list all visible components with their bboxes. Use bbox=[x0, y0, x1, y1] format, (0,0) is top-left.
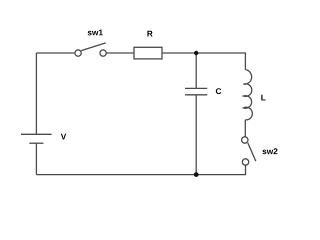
node B (junction dot bottom) bbox=[194, 172, 199, 177]
wire sw2 to bottom-right corner bbox=[196, 165, 245, 174]
wire top-left (battery + to sw1) bbox=[36, 52, 75, 54]
label sw2 bbox=[262, 148, 277, 154]
label C bbox=[216, 88, 222, 94]
node A (junction dot top) bbox=[194, 51, 198, 55]
wire sw1 to R bbox=[106, 52, 134, 54]
capacitor C bbox=[185, 88, 207, 94]
switch sw1 bbox=[75, 43, 106, 56]
battery V bbox=[21, 134, 52, 143]
wire node B to bottom-left corner bbox=[36, 174, 196, 176]
wire node A to top-right corner bbox=[196, 53, 245, 70]
wire R to node A bbox=[162, 52, 196, 54]
label R bbox=[147, 31, 152, 37]
wire bottom-left to battery - bbox=[35, 143, 37, 174]
label L bbox=[261, 95, 265, 101]
wire L to sw2 bbox=[244, 120, 246, 137]
wire capacitor to node B bbox=[195, 95, 197, 175]
resistor R bbox=[134, 47, 162, 59]
wire battery + up to top-left corner bbox=[35, 53, 37, 134]
label sw1 bbox=[88, 30, 103, 36]
switch sw2 bbox=[242, 137, 256, 165]
label V bbox=[61, 134, 66, 140]
wire node A down to capacitor bbox=[195, 53, 197, 88]
inductor L bbox=[243, 70, 252, 120]
